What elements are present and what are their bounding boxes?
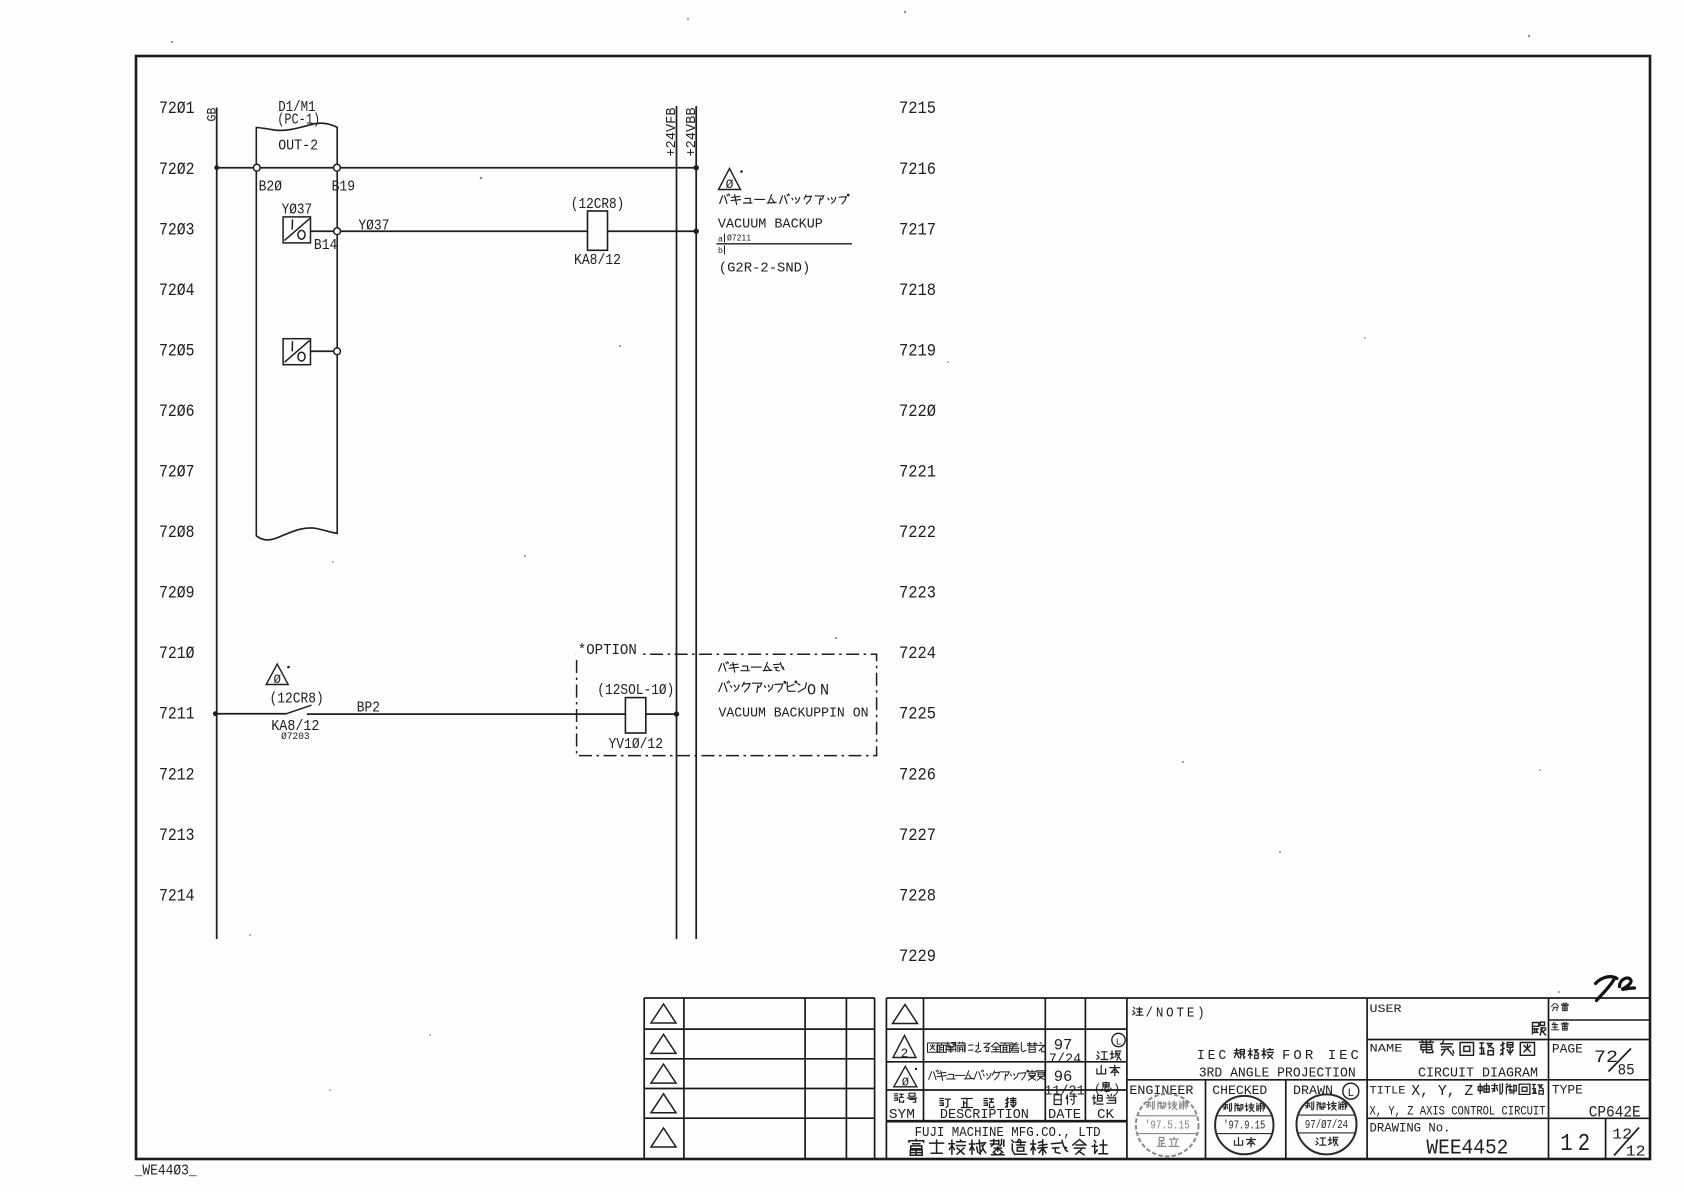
svg-text:97/Ø7/24: 97/Ø7/24 bbox=[1305, 1119, 1348, 1132]
option dashed box bbox=[577, 654, 877, 755]
svg-text:IEC: IEC bbox=[1197, 1049, 1229, 1064]
svg-text:2: 2 bbox=[901, 1047, 909, 1061]
wire inside block 7202 bbox=[260, 167, 333, 169]
scan speckles bbox=[904, 11, 906, 13]
wire stub row 7205 bbox=[311, 350, 334, 352]
svg-text:+24VBB: +24VBB bbox=[685, 108, 700, 157]
svg-text:DRAWN: DRAWN bbox=[1293, 1083, 1333, 1098]
wire 7203 from symbol to B14 bbox=[311, 230, 334, 232]
svg-text:YV1Ø/12: YV1Ø/12 bbox=[609, 737, 664, 753]
svg-text:7226: 7226 bbox=[899, 766, 936, 785]
svg-text:_WE44Ø3_: _WE44Ø3_ bbox=[134, 1164, 197, 1180]
svg-text:Ø7203: Ø7203 bbox=[281, 731, 310, 742]
svg-text:7217: 7217 bbox=[899, 221, 936, 240]
svg-text:b: b bbox=[718, 246, 723, 256]
svg-text:a: a bbox=[718, 234, 723, 244]
svg-text:7/24: 7/24 bbox=[1049, 1053, 1081, 1068]
relay contact KA8/12 (12CR8) bbox=[286, 705, 311, 714]
node +24VFB bus bbox=[676, 106, 678, 939]
svg-text:L: L bbox=[1347, 1088, 1354, 1100]
svg-text:(12CR8): (12CR8) bbox=[571, 197, 625, 213]
svg-text:72Ø7: 72Ø7 bbox=[159, 464, 195, 483]
revision desc row3 kanji bbox=[929, 1070, 1046, 1081]
svg-text:B19: B19 bbox=[332, 179, 355, 195]
stamp CHECKED Yamamoto bbox=[1215, 1096, 1273, 1154]
svg-text:7214: 7214 bbox=[159, 887, 195, 906]
node +24VBB bus bbox=[695, 106, 697, 939]
underline bbox=[717, 243, 853, 245]
svg-text:+24VFB: +24VFB bbox=[665, 108, 680, 157]
PLC output symbol (I/O box) row 7205 bbox=[283, 339, 310, 365]
svg-text:72Ø9: 72Ø9 bbox=[159, 585, 195, 604]
wire rung 7211 coil to +24VFB bbox=[646, 713, 677, 715]
svg-text:7213: 7213 bbox=[159, 827, 195, 846]
header DESCRIPTION bbox=[940, 1098, 1016, 1108]
stamp column dividers bbox=[1205, 1080, 1207, 1159]
svg-text:96: 96 bbox=[1054, 1068, 1073, 1086]
svg-text:72Ø1: 72Ø1 bbox=[159, 100, 195, 119]
wire rung 7203 to relay coil bbox=[341, 230, 588, 232]
label seiban bbox=[1551, 1023, 1568, 1031]
connector block D1/M1 (PC-1) OUT-2 bbox=[256, 123, 337, 540]
svg-text:722Ø: 722Ø bbox=[899, 403, 936, 422]
svg-text:PAGE: PAGE bbox=[1552, 1043, 1583, 1057]
label vacuum backup pin katakana line1 bbox=[719, 662, 784, 672]
revision mark triangle 0 lower bbox=[266, 664, 288, 685]
svg-text:X, Y, Z: X, Y, Z bbox=[1411, 1084, 1473, 1100]
svg-text:L: L bbox=[1116, 1036, 1122, 1047]
svg-text:(: ( bbox=[1094, 1083, 1101, 1097]
svg-text:7219: 7219 bbox=[899, 342, 936, 361]
svg-text:72Ø6: 72Ø6 bbox=[159, 403, 195, 422]
svg-text:12: 12 bbox=[1560, 1131, 1595, 1158]
revision mark triangle 0 top bbox=[719, 169, 741, 190]
handwritten 72 bbox=[1596, 977, 1635, 1001]
svg-text:7222: 7222 bbox=[899, 524, 936, 543]
svg-text:(PC-1): (PC-1) bbox=[277, 113, 320, 129]
svg-text:7221: 7221 bbox=[899, 464, 936, 483]
revision triangle 2 bbox=[893, 1036, 916, 1058]
svg-text:NAME: NAME bbox=[1370, 1044, 1403, 1056]
svg-text:ON: ON bbox=[807, 682, 833, 700]
revision triangle blank row 4 bbox=[651, 1094, 676, 1113]
svg-text:CK: CK bbox=[1097, 1108, 1115, 1123]
svg-text:(12CR8): (12CR8) bbox=[270, 692, 324, 708]
solenoid coil YV10/12 (12SOL-10) bbox=[625, 698, 645, 733]
node GB bus bbox=[216, 108, 218, 940]
svg-text:WEE4452: WEE4452 bbox=[1426, 1138, 1508, 1161]
svg-text:72Ø3: 72Ø3 bbox=[159, 221, 195, 240]
svg-text:12: 12 bbox=[1612, 1127, 1632, 1144]
svg-text:Ø: Ø bbox=[726, 177, 734, 192]
revision triangle row1 bbox=[893, 1005, 918, 1024]
revision triangle blank row 5 bbox=[651, 1128, 676, 1147]
svg-text:7228: 7228 bbox=[899, 887, 936, 906]
svg-text:YØ37: YØ37 bbox=[282, 203, 313, 219]
label vacuum backup katakana bbox=[720, 194, 849, 205]
svg-text:7218: 7218 bbox=[899, 282, 936, 301]
svg-text:ENGINEER: ENGINEER bbox=[1129, 1083, 1193, 1098]
svg-text:'97.9.15: '97.9.15 bbox=[1223, 1120, 1265, 1133]
junction on +24VBB 7202 bbox=[694, 165, 699, 170]
relay coil KA8/12 (12CR8) bbox=[588, 211, 608, 250]
svg-text:YØ37: YØ37 bbox=[358, 218, 389, 234]
svg-text:(12SOL-1Ø): (12SOL-1Ø) bbox=[597, 683, 674, 699]
note section frame bbox=[1127, 997, 1367, 999]
svg-text:7216: 7216 bbox=[899, 161, 936, 180]
title block frame bbox=[1367, 997, 1649, 999]
svg-text:): ) bbox=[1113, 1083, 1120, 1097]
junction on +24VFB 7211 bbox=[674, 711, 679, 716]
svg-text:/NOTE): /NOTE) bbox=[1146, 1007, 1208, 1022]
svg-text:7211: 7211 bbox=[159, 706, 195, 725]
junction on GB bus 7202 bbox=[214, 165, 219, 170]
wire rung 7211 mid bbox=[307, 713, 626, 715]
revision triangle blank row 1 bbox=[651, 1004, 676, 1023]
svg-text:CIRCUIT DIAGRAM: CIRCUIT DIAGRAM bbox=[1418, 1067, 1538, 1082]
wire rung 7211 left bbox=[217, 713, 287, 715]
junction on +24VBB 7203 bbox=[694, 229, 699, 234]
label tono bbox=[1533, 1022, 1546, 1035]
stamp DRAWN Esaka bbox=[1297, 1094, 1357, 1154]
CK circle L bbox=[1112, 1033, 1125, 1046]
PLC output symbol Y037 (I/O box) bbox=[283, 217, 310, 243]
svg-text:Ø7211: Ø7211 bbox=[727, 233, 751, 244]
svg-text:7223: 7223 bbox=[899, 585, 936, 604]
svg-text:11/21: 11/21 bbox=[1044, 1085, 1085, 1100]
label vacuum backup pin katakana line2 bbox=[719, 681, 807, 692]
svg-text:GB: GB bbox=[206, 107, 220, 121]
svg-text:Ø: Ø bbox=[273, 673, 281, 687]
svg-text:KA8/12: KA8/12 bbox=[574, 253, 621, 269]
stamp ENGINEER Adachi bbox=[1136, 1094, 1199, 1157]
label *OPTION bbox=[576, 643, 639, 656]
svg-text:7227: 7227 bbox=[899, 827, 936, 846]
terminal circle row 7205 bbox=[334, 348, 341, 355]
CK name Esaka bbox=[1097, 1051, 1121, 1060]
CK name Yamamoto bbox=[1097, 1065, 1120, 1076]
revision desc row2 kanji bbox=[928, 1042, 1046, 1052]
company name kanji bbox=[909, 1139, 1108, 1155]
svg-text:72Ø2: 72Ø2 bbox=[159, 161, 195, 180]
svg-text:VACUUM BACKUP: VACUUM BACKUP bbox=[718, 216, 823, 232]
svg-text:X, Y, Z AXIS CONTROL CIRCUIT: X, Y, Z AXIS CONTROL CIRCUIT bbox=[1370, 1104, 1546, 1119]
svg-text:12: 12 bbox=[1626, 1144, 1646, 1161]
revision triangle blank row 2 bbox=[651, 1034, 676, 1053]
pin B20 terminal circle bbox=[253, 164, 260, 171]
svg-text:7224: 7224 bbox=[899, 645, 936, 664]
revision triangle blank row 3 bbox=[651, 1064, 676, 1083]
svg-text:7212: 7212 bbox=[159, 766, 195, 785]
header CK bbox=[1093, 1094, 1116, 1104]
svg-text:3RD ANGLE PROJECTION: 3RD ANGLE PROJECTION bbox=[1199, 1067, 1356, 1082]
svg-text:VACUUM BACKUPPIN ON: VACUUM BACKUPPIN ON bbox=[719, 705, 869, 721]
pin B19 terminal circle bbox=[334, 164, 341, 171]
svg-text:FUJI MACHINE MFG.CO., LTD: FUJI MACHINE MFG.CO., LTD bbox=[915, 1125, 1101, 1141]
circled L bbox=[1343, 1083, 1359, 1099]
revision triangle 0 bbox=[894, 1066, 917, 1087]
svg-text:B14: B14 bbox=[314, 238, 337, 254]
svg-text:DATE: DATE bbox=[1048, 1108, 1081, 1123]
name kanji circuit diagram bbox=[1419, 1041, 1534, 1056]
svg-text:'97.5.15: '97.5.15 bbox=[1145, 1120, 1190, 1133]
svg-text:B2Ø: B2Ø bbox=[259, 179, 283, 195]
svg-text:*OPTION: *OPTION bbox=[578, 643, 637, 659]
svg-text:FOR IEC: FOR IEC bbox=[1282, 1049, 1362, 1064]
svg-text:(G2R-2-SND): (G2R-2-SND) bbox=[719, 261, 811, 277]
svg-text:TYPE: TYPE bbox=[1552, 1084, 1583, 1098]
svg-text:7215: 7215 bbox=[899, 100, 936, 119]
svg-text:CP642E: CP642E bbox=[1589, 1104, 1641, 1122]
svg-text:72Ø5: 72Ø5 bbox=[159, 342, 195, 361]
junction on GB bus 7211 bbox=[213, 711, 218, 716]
svg-text:72Ø8: 72Ø8 bbox=[159, 524, 195, 543]
svg-text:7229: 7229 bbox=[899, 948, 936, 967]
svg-text:DESCRIPTION: DESCRIPTION bbox=[940, 1108, 1029, 1123]
wire rung 7202 right to +24VBB bbox=[340, 167, 696, 169]
svg-text:7225: 7225 bbox=[899, 706, 936, 725]
wire rung 7202 left bbox=[217, 167, 254, 169]
svg-text:SYM: SYM bbox=[889, 1108, 915, 1123]
right revision table bbox=[886, 997, 1127, 999]
svg-text:72Ø4: 72Ø4 bbox=[159, 282, 195, 301]
svg-text:USER: USER bbox=[1370, 1004, 1402, 1016]
left revision table bbox=[644, 997, 874, 999]
header DATE bbox=[1054, 1095, 1076, 1105]
label NOTE bbox=[1133, 1007, 1143, 1015]
label bunban bbox=[1552, 1003, 1569, 1011]
pin B14 terminal circle bbox=[334, 228, 341, 235]
header SYM bbox=[894, 1093, 916, 1102]
svg-text:TITLE: TITLE bbox=[1370, 1086, 1406, 1098]
svg-text:DRAWING No.: DRAWING No. bbox=[1370, 1121, 1451, 1136]
svg-text:BP2: BP2 bbox=[357, 701, 380, 717]
svg-text:Ø: Ø bbox=[902, 1076, 909, 1090]
wire rung 7203 coil to +24VBB bbox=[608, 230, 697, 232]
svg-text:85: 85 bbox=[1618, 1062, 1635, 1080]
svg-text:721Ø: 721Ø bbox=[159, 645, 195, 664]
svg-text:OUT-2: OUT-2 bbox=[278, 138, 318, 154]
